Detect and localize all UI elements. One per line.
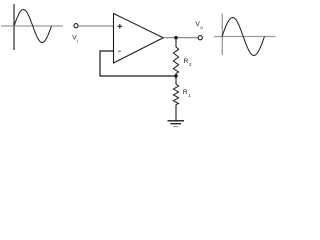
resistor R2 — [173, 47, 178, 74]
output sine wave — [222, 18, 265, 56]
label R2 — [184, 58, 193, 67]
svg-text:1: 1 — [188, 93, 191, 98]
wire feedback from inverting input — [100, 51, 176, 76]
input waveform horizontal axis — [1, 25, 63, 27]
wire junction to R2 — [175, 38, 177, 47]
resistor R1 — [173, 84, 178, 105]
wire R2 to node — [175, 74, 177, 77]
svg-text:o: o — [200, 25, 203, 30]
op-amp U1 — [114, 14, 164, 64]
ground — [168, 121, 185, 127]
output waveform horizontal axis — [214, 36, 276, 38]
terminal Vo — [198, 36, 202, 40]
input waveform vertical axis — [13, 4, 15, 50]
label R1 — [183, 89, 191, 98]
wire R1 to ground — [175, 105, 177, 121]
svg-text:2: 2 — [189, 62, 192, 67]
node feedback junction — [174, 74, 177, 77]
label Vi — [72, 34, 78, 43]
input sine wave — [14, 10, 52, 43]
svg-text:i: i — [77, 39, 78, 44]
wire node to R1 — [175, 76, 177, 84]
wire Vi to op-amp noninverting input — [78, 25, 113, 27]
label Vo — [195, 21, 203, 30]
wire op-amp output — [163, 37, 198, 39]
terminal Vi — [74, 24, 78, 28]
svg-text:R: R — [184, 58, 189, 65]
output waveform vertical axis — [221, 14, 223, 56]
node output junction — [174, 36, 177, 39]
